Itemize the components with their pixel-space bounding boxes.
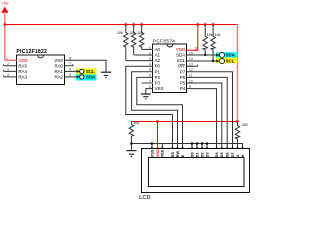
svg-text:VDD: VDD bbox=[176, 47, 185, 52]
svg-text:E: E bbox=[181, 154, 185, 157]
svg-text:RW: RW bbox=[176, 151, 180, 158]
ground (PCF VSS) bbox=[141, 94, 151, 99]
wire stub PIC RA4 (nc) bbox=[4, 70, 17, 72]
svg-text:SCL: SCL bbox=[86, 69, 95, 74]
ground (LCD bus) bbox=[126, 144, 136, 157]
svg-text:VSS: VSS bbox=[155, 86, 164, 91]
wire PIC VSS to ground bbox=[65, 60, 106, 72]
svg-text:+5V: +5V bbox=[1, 0, 9, 5]
svg-text:P7: P7 bbox=[180, 69, 186, 74]
resistor R6 10k (LCD contrast) bbox=[129, 121, 139, 144]
svg-text:A: A bbox=[236, 154, 240, 157]
svg-text:PIC12F1822: PIC12F1822 bbox=[16, 49, 47, 55]
junction dots on bottom red rail bbox=[156, 120, 239, 123]
wire PCF P7 to LCD D7 bbox=[187, 72, 233, 149]
wire PCF P6 to LCD D6 bbox=[187, 77, 227, 149]
resistor R1 10k (left pullup 1) bbox=[117, 24, 128, 61]
wire stub PCF P3 (nc, gray) bbox=[142, 82, 153, 84]
svg-text:SDA: SDA bbox=[176, 53, 185, 58]
svg-text:RA4: RA4 bbox=[18, 69, 27, 74]
svg-text:D3: D3 bbox=[205, 152, 209, 157]
svg-text:VDD: VDD bbox=[156, 149, 160, 157]
wire PIC RA1 to SCL terminal bbox=[65, 70, 80, 72]
svg-text:SCL: SCL bbox=[226, 59, 235, 64]
wire PCF SDA to terminal bbox=[187, 54, 220, 56]
wire stub PIC RA3 (nc) bbox=[4, 75, 17, 77]
resistor R7 330 (LCD backlight) bbox=[235, 122, 247, 150]
svg-text:D1: D1 bbox=[195, 152, 199, 157]
wire +5V stem (pink vertical to PIC VDD) bbox=[4, 12, 6, 60]
svg-text:A0: A0 bbox=[155, 47, 161, 52]
resistor R4 10k (SDA pullup) bbox=[203, 24, 213, 55]
svg-text:16: 16 bbox=[194, 46, 198, 50]
svg-text:SDA: SDA bbox=[86, 75, 96, 80]
svg-text:RA2: RA2 bbox=[54, 74, 63, 79]
svg-text:330: 330 bbox=[242, 123, 248, 127]
terminal SDA (PCF side, cyan) bbox=[216, 52, 238, 57]
svg-text:SDA: SDA bbox=[226, 53, 235, 58]
resistor R5 10k (SCL pullup) bbox=[211, 24, 221, 61]
junction dot bus/VSS bbox=[151, 142, 154, 145]
junction dot R4/SDA bbox=[204, 54, 206, 56]
svg-text:VSS: VSS bbox=[54, 58, 63, 63]
svg-text:10k: 10k bbox=[133, 121, 139, 125]
wire PCF A2 to R1 bbox=[126, 60, 153, 62]
pin endpoint dots LCD bbox=[151, 147, 243, 149]
wire LCD VDD drop bbox=[157, 122, 159, 150]
svg-text:P0: P0 bbox=[155, 64, 161, 69]
svg-text:P6: P6 bbox=[180, 75, 186, 80]
wire red right drop bbox=[236, 24, 238, 122]
wire +5V top rail bbox=[5, 24, 238, 26]
svg-text:P2: P2 bbox=[155, 75, 161, 80]
LCD module LM016L bbox=[139, 149, 250, 202]
wire PCF SCL to terminal bbox=[187, 60, 220, 62]
svg-text:PCF8574: PCF8574 bbox=[153, 39, 175, 45]
svg-text:10k: 10k bbox=[137, 31, 143, 35]
wire stub PIC RA0 (nc) bbox=[65, 64, 73, 66]
wire ground bus (LCD) bbox=[131, 144, 242, 150]
svg-text:10k: 10k bbox=[129, 31, 135, 35]
svg-text:RA1: RA1 bbox=[54, 69, 63, 74]
svg-text:10k: 10k bbox=[117, 31, 123, 35]
svg-text:P3: P3 bbox=[155, 81, 161, 86]
svg-text:14: 14 bbox=[189, 57, 193, 61]
resistor R3 10k (left pullup 3) bbox=[137, 24, 144, 49]
wire PCF A0 to R3 bbox=[142, 48, 153, 50]
wire PCF P1 to LCD RW bbox=[132, 72, 178, 149]
svg-text:SCL: SCL bbox=[177, 58, 186, 63]
svg-text:D5: D5 bbox=[220, 152, 224, 157]
wire PCF P0 to LCD RS bbox=[126, 66, 173, 149]
wire stub PIC RA5 (nc) bbox=[4, 64, 17, 66]
svg-text:P5: P5 bbox=[180, 81, 186, 86]
svg-text:D7: D7 bbox=[231, 152, 235, 157]
wire PCF P4 to LCD D4 bbox=[187, 89, 217, 149]
junction dot R5/SCL bbox=[212, 60, 214, 62]
wire PCF P5 to LCD D5 bbox=[187, 83, 222, 149]
wire PCF VSS to ground bbox=[146, 89, 153, 94]
chip U2 PCF8574 bbox=[153, 39, 187, 93]
terminal SDA (PIC side, cyan) bbox=[76, 75, 97, 81]
power +5V arrow symbol bbox=[2, 7, 8, 12]
svg-text:D2: D2 bbox=[200, 152, 204, 157]
svg-text:RA3: RA3 bbox=[18, 74, 27, 79]
junction dots bus/D0-D3 bbox=[191, 142, 209, 145]
svg-text:RA0: RA0 bbox=[54, 63, 63, 68]
svg-text:A2: A2 bbox=[155, 58, 161, 63]
terminal SCL (PCF side, yellow) bbox=[216, 58, 238, 64]
svg-text:VEE: VEE bbox=[161, 149, 165, 157]
svg-text:K: K bbox=[241, 154, 245, 157]
svg-text:A1: A1 bbox=[155, 53, 161, 58]
wire red bottom rail bbox=[131, 121, 237, 123]
wire stub PCF INT (nc) bbox=[187, 65, 198, 67]
wire stubs LCD D0-D3 grounded bbox=[192, 144, 207, 150]
svg-text:10k: 10k bbox=[215, 33, 221, 37]
junction dot bus/resistor R6 bbox=[130, 142, 133, 145]
svg-text:LCD: LCD bbox=[139, 195, 151, 200]
svg-text:RA5: RA5 bbox=[18, 63, 27, 68]
ground (PIC VSS) bbox=[101, 72, 111, 77]
svg-text:D0: D0 bbox=[190, 152, 194, 157]
wire PIC RA2 to SDA terminal bbox=[65, 76, 80, 78]
wire PCF P2 to LCD E bbox=[137, 77, 183, 149]
svg-text:D6: D6 bbox=[226, 152, 230, 157]
svg-text:VDD: VDD bbox=[18, 58, 27, 63]
wire stub LCD VEE bbox=[161, 144, 163, 150]
chip U1 PIC12F1822 bbox=[16, 49, 64, 84]
svg-text:RS: RS bbox=[171, 151, 175, 157]
junction dots on top rail bbox=[3, 23, 214, 26]
resistor R2 10k (left pullup 2) bbox=[129, 24, 136, 55]
svg-text:VSS: VSS bbox=[150, 149, 154, 157]
wire PCF A1 to R2 bbox=[134, 54, 153, 56]
wire PCF VDD feed bbox=[187, 24, 198, 50]
svg-text:P4: P4 bbox=[180, 86, 186, 91]
svg-text:10k: 10k bbox=[207, 33, 213, 37]
terminal SCL (PIC side, yellow) bbox=[76, 69, 97, 75]
svg-text:P1: P1 bbox=[155, 69, 161, 74]
wire PIC VDD (pink from +5V stem) bbox=[5, 59, 17, 61]
wire stub LCD VSS bbox=[151, 144, 153, 150]
